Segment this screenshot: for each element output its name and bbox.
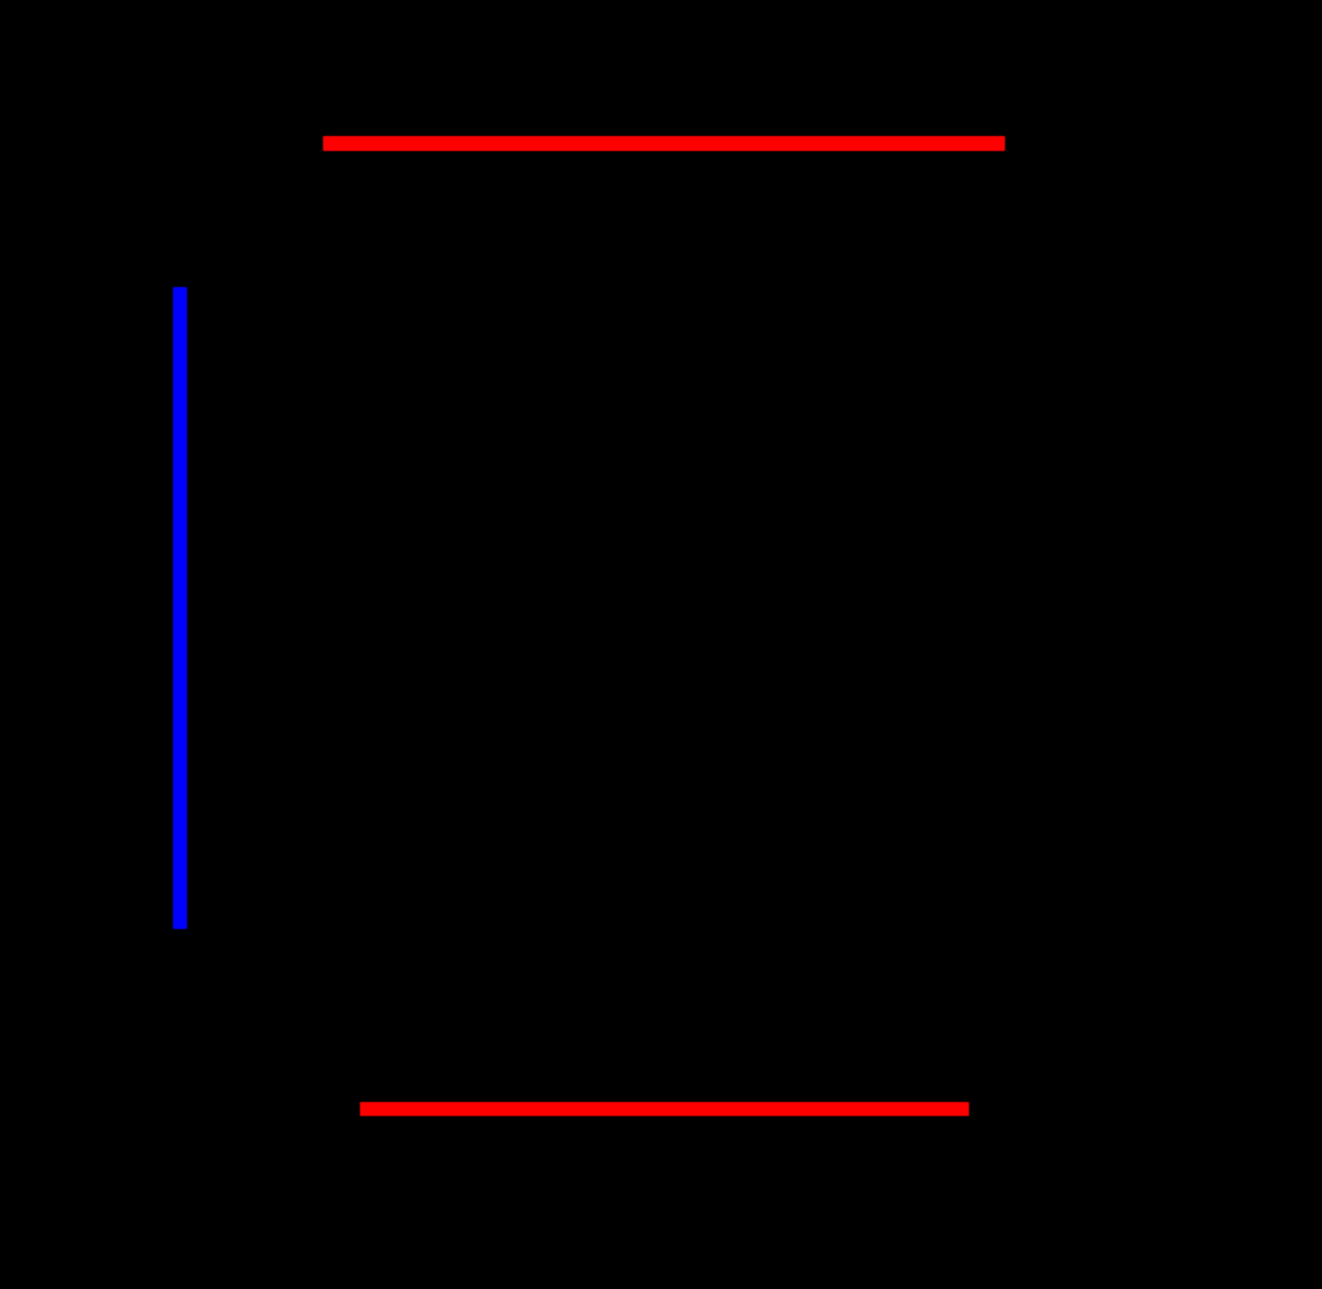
wire: bottom red horizontal rail (positive net) [360, 1102, 969, 1116]
wire: top red horizontal rail (positive net) [323, 136, 1005, 151]
wire: left blue vertical rail (negative net) [173, 287, 187, 929]
